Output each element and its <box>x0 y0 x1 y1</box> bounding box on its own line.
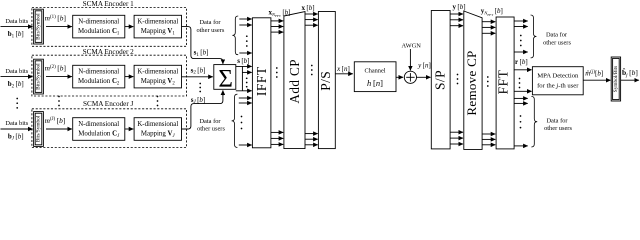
svg-text:m(2) [b]: m(2) [b] <box>45 63 66 72</box>
svg-text:xNFFT [b]: xNFFT [b] <box>269 9 291 19</box>
svg-text:K-dimensional: K-dimensional <box>137 19 178 26</box>
wire FFT out arrow 5 <box>514 102 528 104</box>
dots FFT out bottom fan <box>520 115 522 128</box>
wire adder to S/P <box>417 76 431 78</box>
svg-text:s [b]: s [b] <box>237 57 249 65</box>
svg-text:Modulation CJ: Modulation CJ <box>78 131 120 139</box>
svg-text:Data for: Data for <box>199 118 221 125</box>
svg-text:S/P: S/P <box>433 70 448 90</box>
svg-text:s2 [b]: s2 [b] <box>191 66 206 75</box>
vertical dots mapper column between encoders <box>157 96 159 107</box>
adder node (AWGN sum) <box>404 71 416 83</box>
N-dimensional Modulation C1 block row 1 <box>73 15 125 38</box>
IFFT block <box>252 18 271 148</box>
svg-text:K-dimensional: K-dimensional <box>137 121 178 128</box>
wire RemoveCP to FFT top <box>482 32 495 34</box>
wire S/P to RemoveCP top <box>450 13 463 15</box>
dots top-left fan <box>246 35 248 47</box>
wire modulator to mapper row 2 <box>125 76 134 78</box>
svg-text:Bits/Symbol: Bits/Symbol <box>36 13 42 40</box>
svg-text:MPA Detection: MPA Detection <box>537 73 579 80</box>
summation block Sigma <box>214 65 236 93</box>
wire S/P to RemoveCP bottom <box>450 137 463 139</box>
wire AddCP to P/S bottom <box>305 133 318 135</box>
wire s1 from encoder 1 to summation top <box>182 27 223 63</box>
dots sum out fan <box>246 77 248 87</box>
wire input arrow row 1 <box>1 26 33 28</box>
svg-text:Mapping V1: Mapping V1 <box>141 28 176 36</box>
MPA Detection block <box>532 67 583 95</box>
svg-text:Remove CP: Remove CP <box>464 50 479 115</box>
Bits/Symbol block row 1 <box>34 9 44 44</box>
svg-text:other users: other users <box>543 39 571 46</box>
svg-text:K-dimensional: K-dimensional <box>137 69 178 76</box>
K-dimensional Mapping V1 block row 1 <box>134 15 181 38</box>
svg-text:Data for: Data for <box>546 32 568 39</box>
svg-text:P/S: P/S <box>318 71 333 91</box>
wire RemoveCP to FFT bottom <box>482 133 495 135</box>
dots RemoveCP-FFT gap <box>487 76 489 87</box>
svg-text:Data bits: Data bits <box>5 120 28 127</box>
svg-text:x [b]: x [b] <box>302 4 315 12</box>
svg-text:y [n]: y [n] <box>417 61 431 69</box>
wire FFT to MPA arrow 1 <box>514 69 532 71</box>
wire input arrow row 2 <box>1 76 33 78</box>
wire AddCP to P/S top <box>305 24 318 26</box>
wire IFFT to AddCP bottom <box>271 131 283 133</box>
svg-text:for the j-th user: for the j-th user <box>537 83 579 90</box>
brace bottom-right group <box>531 96 537 147</box>
brace bottom-left group <box>232 94 238 147</box>
data bits input label bJ[b] <box>5 120 28 142</box>
svg-text:b1 [b]: b1 [b] <box>8 30 24 39</box>
svg-text:yNFFT [b]: yNFFT [b] <box>481 7 503 17</box>
svg-text:N-dimensional: N-dimensional <box>78 121 119 128</box>
wire S/P to RemoveCP bottom <box>450 143 463 145</box>
svg-text:Σ: Σ <box>218 66 233 93</box>
wire RemoveCP to FFT top <box>482 21 495 23</box>
svg-text:IFFT: IFFT <box>254 66 269 96</box>
dots S/P-RemoveCP gap <box>457 74 459 85</box>
wire sum out mid arrow <box>242 71 251 73</box>
wire S/P to RemoveCP top <box>450 25 463 27</box>
wire S/P to RemoveCP top <box>450 19 463 21</box>
svg-text:other users: other users <box>544 125 572 132</box>
vertical dots m-label column between encoders <box>58 96 60 107</box>
svg-text:b2 [b]: b2 [b] <box>8 80 24 89</box>
svg-text:s1 [b]: s1 [b] <box>194 49 209 58</box>
wire other-user arrow 6 into IFFT <box>239 144 252 146</box>
wire other-user arrow 2 into IFFT <box>239 24 251 26</box>
wire AddCP to P/S top <box>305 19 318 21</box>
dots bottom-left fan <box>241 116 243 130</box>
Add CP block (trapezoid) <box>284 12 305 149</box>
svg-text:Mapping VJ: Mapping VJ <box>141 131 176 139</box>
wire IFFT to AddCP top <box>271 31 283 33</box>
wire FFT to MPA arrow 2 <box>514 90 532 92</box>
label Data for other users (top right) <box>543 32 571 47</box>
brace top-left group <box>232 16 238 55</box>
wire modulator to mapper row 1 <box>125 26 134 28</box>
wire FFT out arrow 1 <box>514 20 528 22</box>
wire sum out top arrow <box>236 65 252 67</box>
svg-text:bJ [b]: bJ [b] <box>8 132 24 141</box>
wire AWGN into adder <box>409 49 411 70</box>
wire IFFT to AddCP top <box>271 20 283 22</box>
svg-text:Symbol/Bits: Symbol/Bits <box>613 66 619 93</box>
SCMA encoder 1 dashed box <box>32 8 187 47</box>
svg-text:Modulation C1: Modulation C1 <box>78 28 120 36</box>
FFT block <box>495 17 514 149</box>
svg-text:m̂(j)[b]: m̂(j)[b] <box>585 70 603 78</box>
K-dimensional Mapping VJ block row 3 <box>134 118 181 141</box>
wire Bits/Symbol to modulator row 1 <box>46 26 72 28</box>
wire MPA to Symbol/Bits <box>583 79 610 81</box>
Remove CP block (trapezoid) <box>464 11 482 149</box>
label Data for other users (top left) <box>196 19 224 34</box>
svg-text:b̂j [b]: b̂j [b] <box>622 67 638 79</box>
svg-text:Bits/Symbol: Bits/Symbol <box>36 115 42 142</box>
wire s[b] bus from summation to IFFT <box>241 66 243 90</box>
SCMA encoder 2 dashed box <box>32 55 187 96</box>
svg-text:N-dimensional: N-dimensional <box>78 69 119 76</box>
svg-text:SCMA Encoder 1: SCMA Encoder 1 <box>83 0 135 8</box>
SCMA encoder 3 dashed box <box>32 109 187 148</box>
svg-text:sJ [b]: sJ [b] <box>191 96 206 105</box>
Symbol/Bits block <box>611 57 620 101</box>
dots FFT-MPA <box>519 78 521 89</box>
svg-text:m(1) [b]: m(1) [b] <box>45 13 66 22</box>
wire other-user arrow 1 into IFFT <box>239 18 251 20</box>
wire modulator to mapper row 3 <box>125 128 134 130</box>
svg-text:Add CP: Add CP <box>287 59 302 104</box>
wire RemoveCP to FFT top <box>482 26 495 28</box>
wire AddCP to P/S top <box>305 13 318 15</box>
wire Channel to adder <box>396 76 403 78</box>
wire Bits/Symbol to modulator row 3 <box>46 128 72 130</box>
svg-text:r [b]: r [b] <box>515 58 528 66</box>
P/S block <box>318 12 336 149</box>
label Data for other users (bottom left) <box>197 118 225 133</box>
arrowhead into summation top <box>222 62 224 64</box>
dots FFT out top fan <box>520 35 522 47</box>
wire IFFT to AddCP bottom <box>271 143 283 145</box>
dots IFFT-AddCP gap <box>276 67 278 78</box>
svg-text:SCMA Encoder J: SCMA Encoder J <box>83 100 134 108</box>
brace top-right group <box>531 15 537 58</box>
wire FFT out arrow 3 <box>514 51 528 53</box>
svg-text:other users: other users <box>196 27 224 34</box>
wire input arrow row 3 <box>1 128 33 130</box>
svg-text:FFT: FFT <box>495 69 510 94</box>
Bits/Symbol block row 2 <box>34 59 44 94</box>
wire AddCP to P/S bottom <box>305 138 318 140</box>
wire other-user arrow 5 into IFFT <box>239 102 252 104</box>
svg-text:Data bits: Data bits <box>5 68 28 75</box>
svg-text:Channel: Channel <box>365 68 386 75</box>
vertical dots left margin between encoders <box>16 98 18 109</box>
wire FFT out arrow 2 <box>514 26 528 28</box>
svg-text:SCMA Encoder 2: SCMA Encoder 2 <box>83 48 135 56</box>
data bits input label b1[b] <box>5 18 28 40</box>
svg-text:h [n]: h [n] <box>367 78 383 88</box>
svg-text:Data for: Data for <box>199 19 221 26</box>
wire P/S to Channel <box>335 73 353 75</box>
wire IFFT to AddCP bottom <box>271 137 283 139</box>
wire sJ from encoder J to summation bottom <box>182 95 223 129</box>
wire S/P to RemoveCP bottom <box>450 131 463 133</box>
wire Bits/Symbol to modulator row 2 <box>46 76 72 78</box>
data bits input label b2[b] <box>5 68 28 90</box>
wire output b-hat <box>621 79 639 81</box>
svg-text:y [b]: y [b] <box>453 3 466 11</box>
S/P block <box>431 11 450 149</box>
vertical dots between s2 and sJ <box>199 83 201 93</box>
dots AddCP-P/S gap <box>311 65 313 76</box>
svg-text:x [n]: x [n] <box>336 65 350 73</box>
wire AddCP to P/S bottom <box>305 144 318 146</box>
wire FFT out arrow 6 <box>514 145 528 147</box>
K-dimensional Mapping V2 block row 2 <box>134 65 181 88</box>
wire sum out bottom arrow <box>236 90 252 92</box>
wire RemoveCP to FFT bottom <box>482 144 495 146</box>
svg-text:Data bits: Data bits <box>5 18 28 25</box>
arrowhead into summation bottom <box>222 90 224 95</box>
svg-text:Bits/Symbol: Bits/Symbol <box>36 63 42 90</box>
Channel h[n] block <box>354 62 396 92</box>
svg-text:Data for: Data for <box>546 117 568 124</box>
svg-text:AWGN: AWGN <box>402 43 422 50</box>
Bits/Symbol block row 3 <box>34 112 44 147</box>
svg-text:Mapping V2: Mapping V2 <box>141 78 176 86</box>
wire FFT out arrow 4 <box>514 97 528 99</box>
label Data for other users (bottom right) <box>544 117 572 132</box>
wire IFFT to AddCP top <box>271 26 283 28</box>
wire other-user arrow 3 into IFFT <box>239 52 251 54</box>
svg-text:m(J) [b]: m(J) [b] <box>45 116 66 125</box>
N-dimensional Modulation C2 block row 2 <box>73 65 125 88</box>
wire other-user arrow 4 into IFFT <box>239 97 252 99</box>
N-dimensional Modulation CJ block row 3 <box>73 118 125 141</box>
svg-text:other users: other users <box>197 126 225 133</box>
wire RemoveCP to FFT bottom <box>482 138 495 140</box>
svg-text:N-dimensional: N-dimensional <box>78 19 119 26</box>
svg-text:Modulation C2: Modulation C2 <box>78 78 120 86</box>
wire s2 from encoder 2 into summation <box>182 76 213 78</box>
